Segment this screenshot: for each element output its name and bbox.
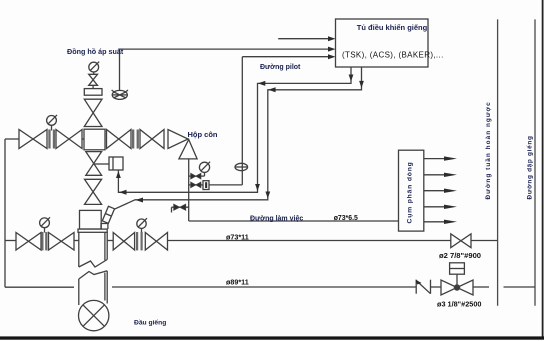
- svg-text:Đường tuần hoàn ngược: Đường tuần hoàn ngược: [483, 101, 492, 199]
- svg-text:Đường pilot: Đường pilot: [260, 64, 301, 71]
- svg-text:Đường làm việc: Đường làm việc: [250, 215, 303, 222]
- svg-text:Tủ điều khiển giếng: Tủ điều khiển giếng: [357, 23, 428, 32]
- svg-text:Cụm phân dòng: Cụm phân dòng: [407, 161, 414, 223]
- svg-text:Đầu giếng: Đầu giếng: [134, 318, 166, 327]
- svg-text:ø73*6.5: ø73*6.5: [334, 215, 358, 222]
- svg-text:Hộp côn: Hộp côn: [188, 130, 218, 139]
- svg-text:ø3 1/8"#2500: ø3 1/8"#2500: [437, 300, 481, 309]
- svg-text:ø89*11: ø89*11: [226, 278, 249, 287]
- svg-text:Đồng hồ áp suất: Đồng hồ áp suất: [67, 47, 124, 56]
- svg-text:ø73*11: ø73*11: [226, 233, 249, 242]
- svg-text:Đường dập giếng: Đường dập giếng: [526, 135, 534, 199]
- svg-text:ø2 7/8"#900: ø2 7/8"#900: [439, 251, 481, 260]
- svg-text:(TSK), (ACS), (BAKER),...: (TSK), (ACS), (BAKER),...: [342, 51, 444, 60]
